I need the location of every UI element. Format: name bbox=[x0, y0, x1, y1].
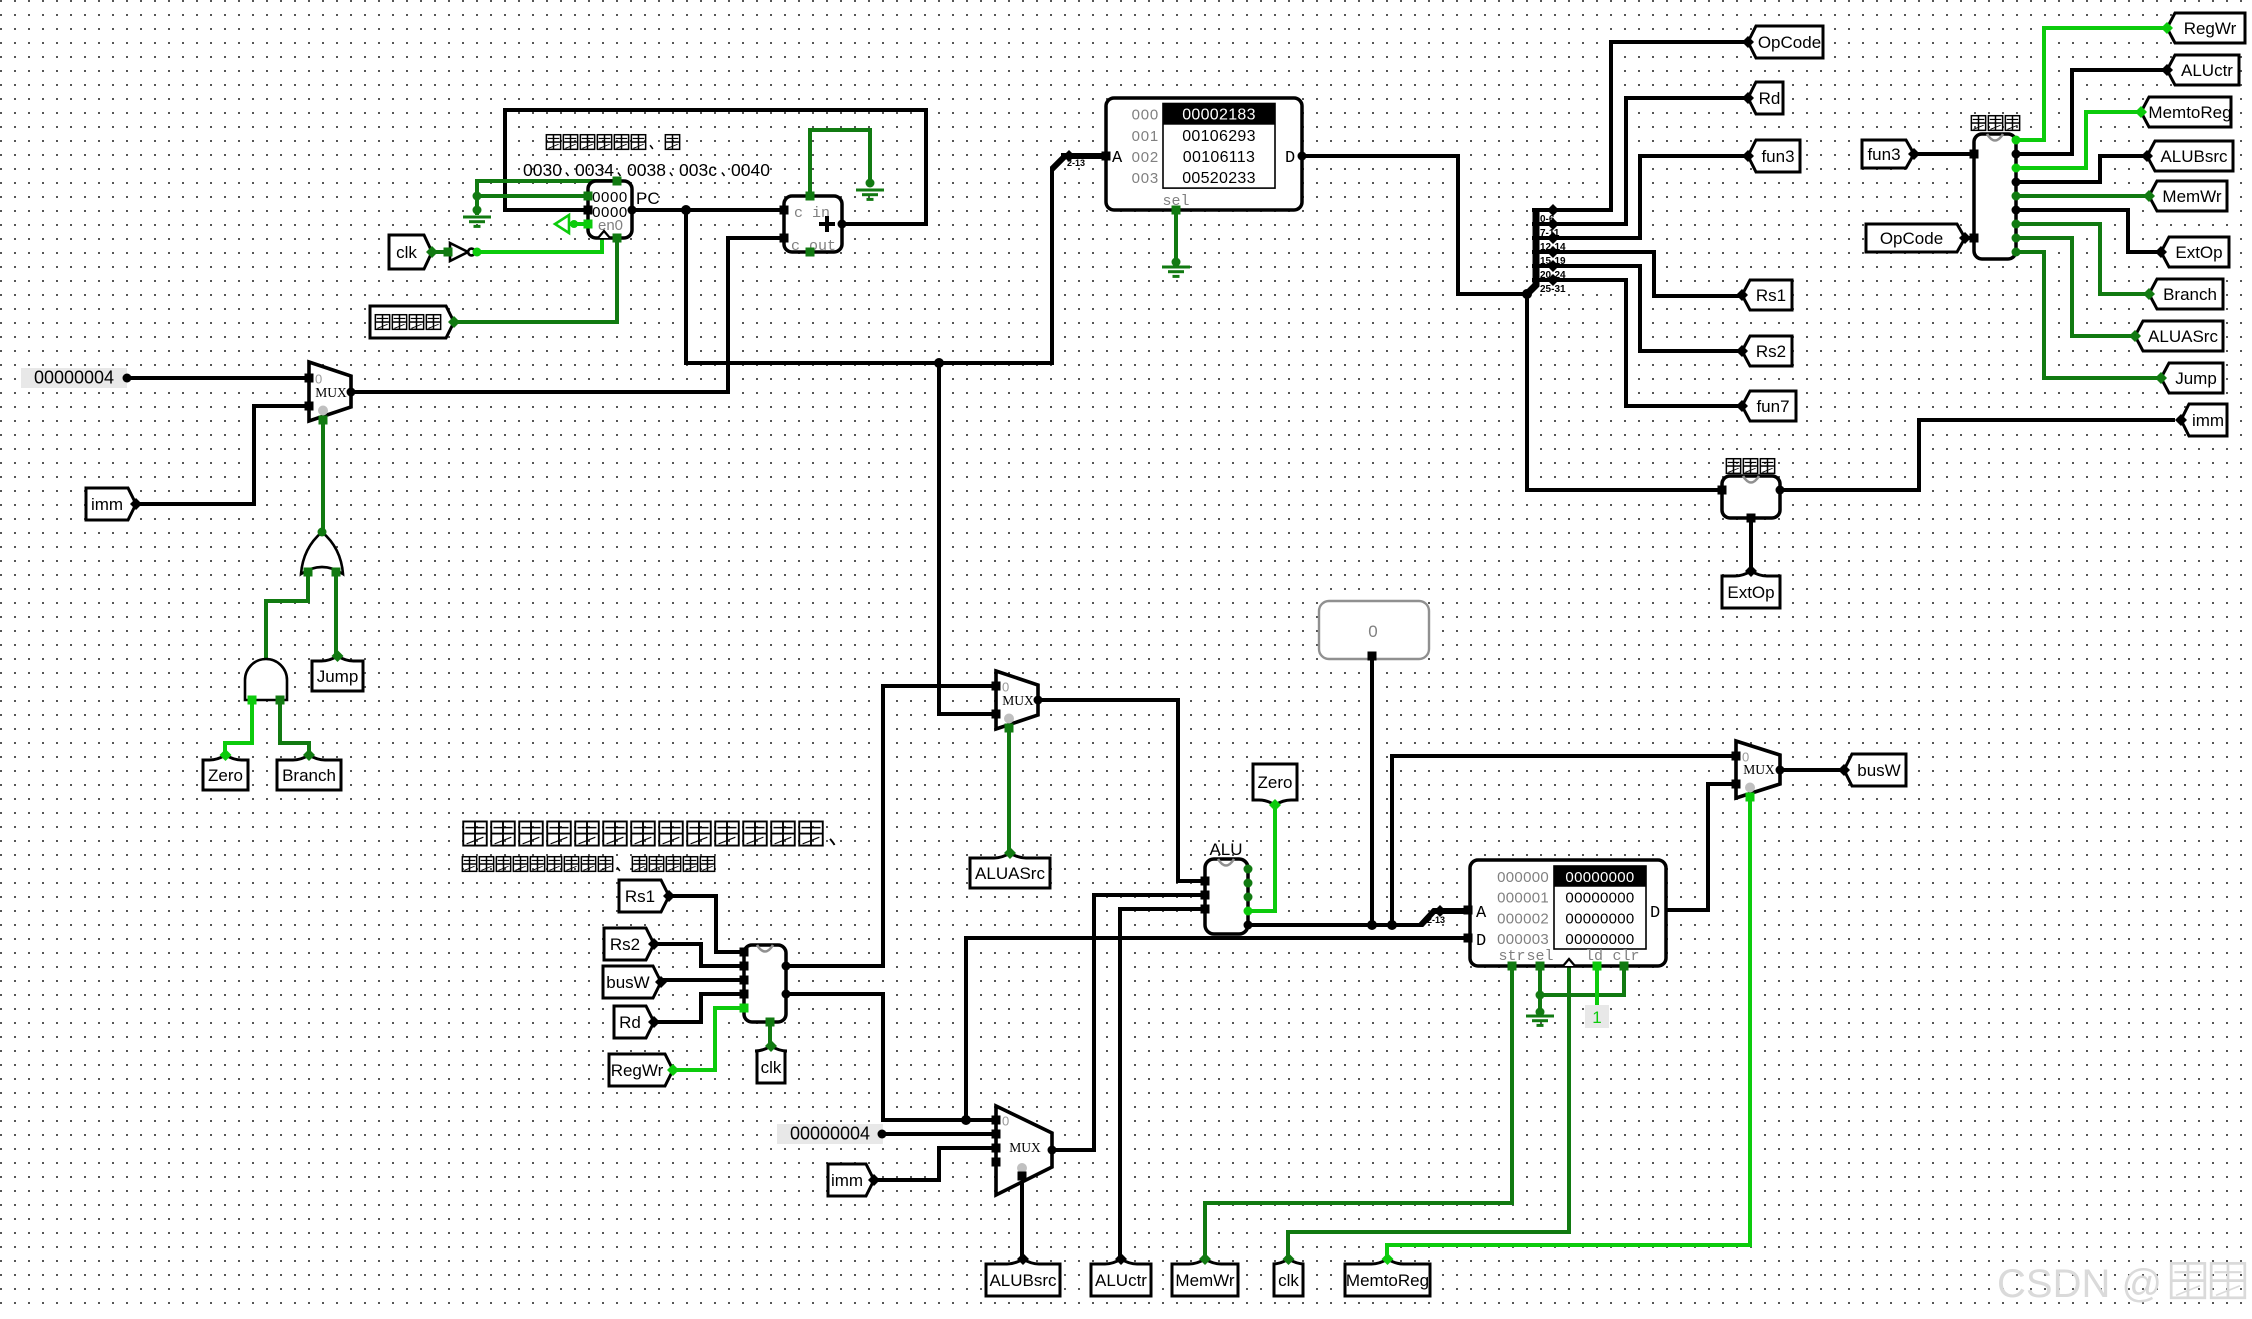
svg-text:MUX: MUX bbox=[315, 385, 347, 400]
svg-text:003: 003 bbox=[1132, 170, 1159, 187]
svg-text:busW: busW bbox=[606, 973, 649, 992]
svg-text:c in: c in bbox=[794, 205, 830, 222]
svg-text:imm: imm bbox=[831, 1171, 863, 1190]
svg-text:Rd: Rd bbox=[1759, 89, 1781, 108]
svg-text:MemWr: MemWr bbox=[1175, 1271, 1235, 1290]
svg-text:PC: PC bbox=[636, 189, 660, 208]
svg-text:D: D bbox=[1476, 932, 1486, 951]
svg-text:Branch: Branch bbox=[2163, 285, 2217, 304]
svg-text:000001: 000001 bbox=[1497, 890, 1549, 907]
svg-text:ALUctr: ALUctr bbox=[1095, 1271, 1147, 1290]
svg-text:12-14: 12-14 bbox=[1540, 242, 1566, 253]
svg-text:D: D bbox=[1285, 149, 1295, 168]
svg-text:D: D bbox=[1650, 904, 1660, 923]
svg-text:25-31: 25-31 bbox=[1540, 284, 1566, 295]
svg-text:Rs1: Rs1 bbox=[1756, 286, 1786, 305]
svg-text:00000004: 00000004 bbox=[34, 368, 114, 388]
svg-text:1: 1 bbox=[1592, 1008, 1601, 1027]
svg-text:2-13: 2-13 bbox=[1427, 915, 1445, 925]
svg-text:00520233: 00520233 bbox=[1182, 170, 1256, 187]
svg-text:00000000: 00000000 bbox=[1565, 890, 1634, 907]
svg-text:clk: clk bbox=[761, 1058, 782, 1077]
svg-text:15-19: 15-19 bbox=[1540, 256, 1566, 267]
svg-text:RegWr: RegWr bbox=[2184, 19, 2237, 38]
svg-text:busW: busW bbox=[1857, 761, 1900, 780]
svg-text:2-13: 2-13 bbox=[1067, 158, 1085, 168]
svg-text:imm: imm bbox=[91, 495, 123, 514]
svg-text:MemtoReg: MemtoReg bbox=[1346, 1271, 1429, 1290]
svg-text:ALUctr: ALUctr bbox=[2181, 61, 2233, 80]
svg-text:CSDN @: CSDN @ bbox=[1997, 1262, 2162, 1306]
svg-text:RegWr: RegWr bbox=[611, 1061, 664, 1080]
svg-text:00000000: 00000000 bbox=[1565, 869, 1634, 886]
svg-text:MUX: MUX bbox=[1743, 762, 1775, 777]
svg-text:Rs2: Rs2 bbox=[610, 935, 640, 954]
svg-text:MemWr: MemWr bbox=[2162, 187, 2222, 206]
svg-text:0040: 0040 bbox=[731, 160, 770, 180]
svg-text:ALUASrc: ALUASrc bbox=[975, 864, 1045, 883]
svg-text:Jump: Jump bbox=[2175, 369, 2217, 388]
svg-text:OpCode: OpCode bbox=[1758, 33, 1821, 52]
svg-text:MUX: MUX bbox=[1002, 693, 1034, 708]
svg-text:0030: 0030 bbox=[523, 160, 562, 180]
svg-text:clk: clk bbox=[396, 243, 417, 262]
svg-text:000002: 000002 bbox=[1497, 910, 1549, 927]
svg-text:00106113: 00106113 bbox=[1183, 149, 1255, 166]
svg-text:002: 002 bbox=[1132, 149, 1159, 166]
svg-text:7-11: 7-11 bbox=[1540, 228, 1560, 239]
svg-text:0-6: 0-6 bbox=[1540, 214, 1555, 225]
svg-text:fun7: fun7 bbox=[1756, 397, 1789, 416]
svg-text:ExtOp: ExtOp bbox=[1727, 583, 1774, 602]
svg-text:Rs1: Rs1 bbox=[625, 887, 655, 906]
svg-text:ALU: ALU bbox=[1209, 840, 1242, 859]
svg-text:clk: clk bbox=[1278, 1271, 1299, 1290]
svg-text:Rd: Rd bbox=[619, 1013, 641, 1032]
svg-text:ALUASrc: ALUASrc bbox=[2148, 327, 2218, 346]
svg-text:001: 001 bbox=[1132, 128, 1159, 145]
svg-text:00106293: 00106293 bbox=[1182, 128, 1256, 145]
svg-text:20-24: 20-24 bbox=[1540, 270, 1566, 281]
svg-text:fun3: fun3 bbox=[1761, 147, 1794, 166]
svg-text:en0: en0 bbox=[598, 217, 623, 234]
svg-text:A: A bbox=[1476, 904, 1487, 923]
svg-text:003c: 003c bbox=[679, 160, 717, 180]
svg-text:0034: 0034 bbox=[575, 160, 614, 180]
svg-text:ALUBsrc: ALUBsrc bbox=[989, 1271, 1057, 1290]
svg-text:imm: imm bbox=[2192, 411, 2224, 430]
svg-text:000: 000 bbox=[1132, 107, 1159, 124]
svg-text:Jump: Jump bbox=[317, 667, 359, 686]
svg-text:00000000: 00000000 bbox=[1565, 931, 1634, 948]
svg-text:ALUBsrc: ALUBsrc bbox=[2160, 147, 2228, 166]
svg-text:Zero: Zero bbox=[208, 766, 243, 785]
svg-text:Rs2: Rs2 bbox=[1756, 342, 1786, 361]
svg-text:MemtoReg: MemtoReg bbox=[2148, 103, 2231, 122]
svg-text:00002183: 00002183 bbox=[1182, 107, 1256, 124]
svg-text:Zero: Zero bbox=[1258, 773, 1293, 792]
svg-text:000000: 000000 bbox=[1497, 869, 1549, 886]
svg-text:0038: 0038 bbox=[627, 160, 666, 180]
svg-text:MUX: MUX bbox=[1009, 1140, 1041, 1155]
svg-text:0: 0 bbox=[1368, 622, 1377, 641]
svg-text:A: A bbox=[1112, 149, 1123, 168]
svg-text:ExtOp: ExtOp bbox=[2175, 243, 2222, 262]
svg-text:fun3: fun3 bbox=[1867, 145, 1900, 164]
svg-text:0: 0 bbox=[1002, 1114, 1009, 1129]
svg-text:00000004: 00000004 bbox=[790, 1124, 870, 1144]
svg-text:000003: 000003 bbox=[1497, 931, 1549, 948]
svg-text:00000000: 00000000 bbox=[1565, 910, 1634, 927]
svg-text:OpCode: OpCode bbox=[1880, 229, 1943, 248]
svg-text:Branch: Branch bbox=[282, 766, 336, 785]
